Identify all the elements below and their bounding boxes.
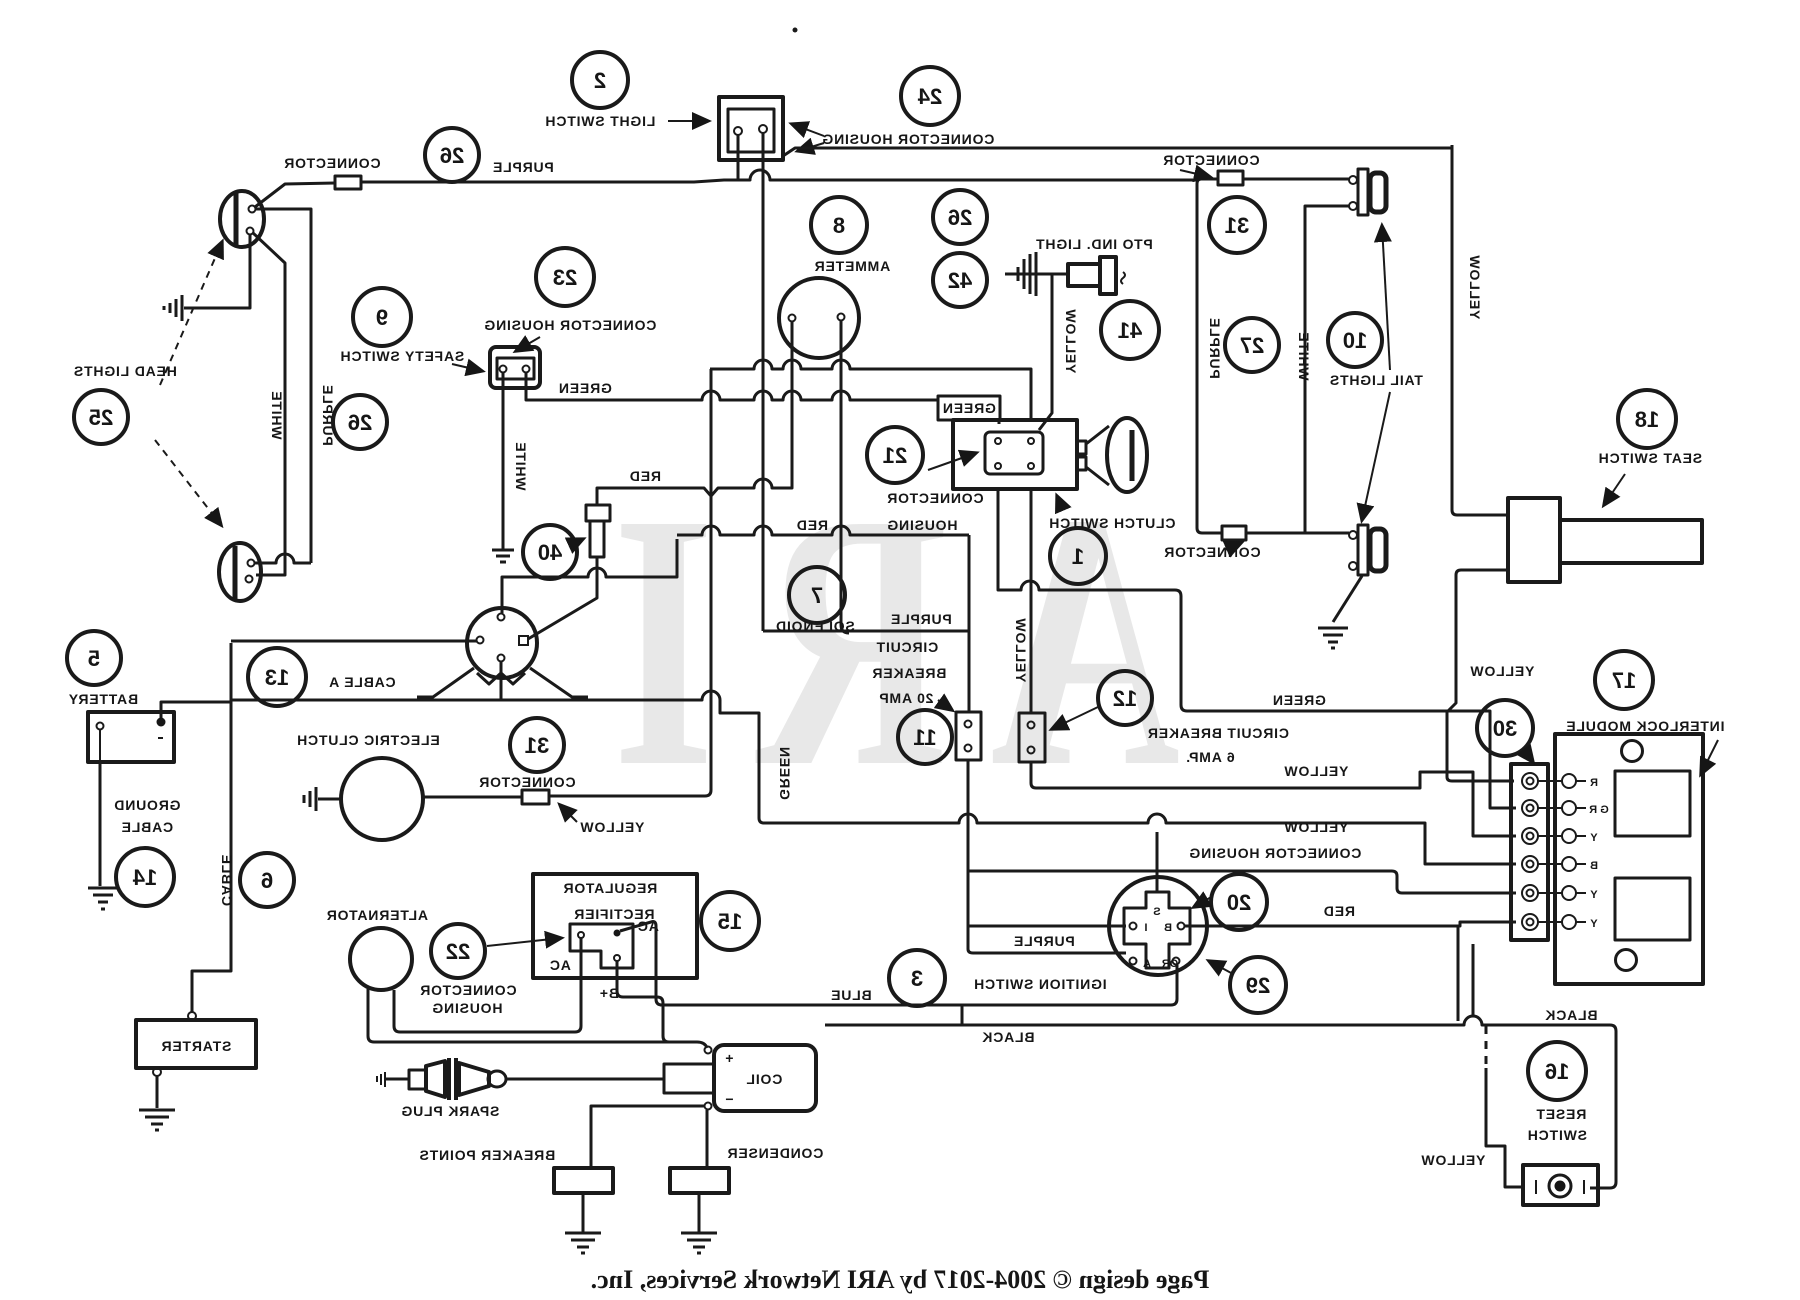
ground (safety switch) [492,550,514,562]
svg-text:PTO IND. LIGHT: PTO IND. LIGHT [1035,236,1153,252]
svg-text:HOUSING: HOUSING [432,1000,503,1016]
svg-text:2: 2 [594,68,606,93]
svg-text:GREEN: GREEN [942,400,996,416]
callout circle 27 [1225,318,1279,372]
svg-text:IGNITION SWITCH: IGNITION SWITCH [973,976,1106,992]
arrow housing to switch bottom [798,143,824,151]
svg-text:GREEN: GREEN [1272,692,1326,708]
svg-text:R: R [1590,777,1598,789]
condenser [670,1168,729,1193]
callout circle 2 [572,52,628,108]
svg-text:Y: Y [1590,889,1598,901]
arrow 40 to fuse [570,539,583,545]
callout circle 13 [248,648,306,706]
callout circle 3 [889,950,945,1006]
wire clutch bottom left (green) to module bus [998,489,1516,808]
svg-text:15: 15 [718,909,742,934]
wire purple jog over white into lower headlight [255,554,311,563]
label CIRCUIT BREAKER 20 AMP [872,639,947,706]
wire spark plug to coil [506,1078,664,1081]
svg-text:S: S [1153,906,1160,918]
wire red bus to connector 30 [968,871,1516,893]
svg-text:3: 3 [911,966,923,991]
regulator rectifier (item 15) [533,874,697,978]
coil minus terminal [705,1103,712,1110]
ground (breaker points) [565,1233,601,1253]
svg-text:CIRCUIT: CIRCUIT [876,639,938,655]
svg-text:6 AMP.: 6 AMP. [1185,749,1234,765]
callout circle 30 [1477,700,1533,756]
svg-text:SAFETY SWITCH: SAFETY SWITCH [340,348,464,364]
svg-text:INTERLOCK MODULE: INTERLOCK MODULE [1565,718,1724,734]
svg-text:41: 41 [1118,318,1142,343]
callout circle 31 (tail) [1209,197,1265,253]
solenoid (item 7) [467,608,537,678]
arrow housing to switch top [792,124,824,136]
svg-text:ELECTRIC CLUTCH: ELECTRIC CLUTCH [296,732,439,748]
svg-text:ALTERNATOR: ALTERNATOR [326,907,428,923]
svg-text:STARTER: STARTER [161,1038,232,1054]
clutch switch housing (item 21/1) [953,420,1077,489]
svg-text:YELLOW: YELLOW [1421,1152,1486,1168]
arrow to lower headlight (dashed) [155,440,221,525]
svg-text:COIL: COIL [746,1071,783,1087]
arrow 12 to breaker [1052,707,1098,729]
arrow tail lights down [1362,392,1390,520]
wire regulator AC top to blue [620,922,662,1006]
svg-text:BATTERY: BATTERY [68,691,138,707]
wire green into housing [998,420,1001,424]
callout circle 11 [898,710,952,764]
svg-text:RED: RED [796,517,828,533]
callout circle 21 [867,427,923,483]
wire light switch right terminal (purple drop) [762,133,765,631]
breaker points [554,1168,613,1193]
svg-text:PURPLE: PURPLE [890,611,952,627]
svg-text:CABLE: CABLE [121,819,173,835]
svg-text:23: 23 [553,265,577,290]
svg-text:25: 25 [89,405,113,430]
svg-text:+: + [725,1050,734,1066]
svg-text:20: 20 [1227,890,1251,915]
svg-text:SEAT SWITCH: SEAT SWITCH [1598,450,1702,466]
ammeter (item 8) [779,278,859,358]
wire ignition B to connector 30 [1185,922,1516,926]
svg-text:WHITE: WHITE [269,390,285,439]
svg-text:SOLENOID: SOLENOID [775,618,855,634]
wire purple bus to light switch and tail lights [361,170,1197,182]
callout circle 15 [701,892,759,950]
svg-text:GREEN: GREEN [777,746,793,800]
svg-text:10: 10 [1343,328,1367,353]
svg-text:31: 31 [1225,213,1249,238]
arrow 21 to housing [928,453,976,470]
svg-text:14: 14 [132,865,157,890]
svg-text:RED: RED [629,468,661,484]
svg-text:30: 30 [1493,716,1517,741]
arrow 23 housing to switch [516,337,540,351]
svg-text:CONNECTOR HOUSING: CONNECTOR HOUSING [1189,845,1362,861]
wire tail light 1 purple through connector [1197,179,1349,533]
svg-text:I: I [1144,922,1147,934]
PTO ind light [1005,252,1125,296]
callout circle 18 [1618,390,1676,448]
svg-text:CONNECTOR: CONNECTOR [478,774,575,790]
svg-text:13: 13 [265,665,289,690]
svg-text:LIGHT SWITCH: LIGHT SWITCH [545,113,656,129]
wire breaker 11 bottom drop [968,760,1126,953]
svg-text:Y: Y [1590,918,1598,930]
svg-text:CIRCUIT BREAKER: CIRCUIT BREAKER [1147,725,1289,741]
svg-text:26: 26 [348,410,372,435]
wire green from safety switch [526,373,938,400]
wire electric clutch to connector [423,796,522,799]
circuit breaker 20A (item 11) [956,712,981,760]
arrow to safety switch [452,364,482,371]
wire purple vertical to breaker 11 [968,535,971,712]
callout circle 23 [536,248,594,306]
svg-text:18: 18 [1635,407,1659,432]
wire solenoid bottom stub [500,662,503,700]
svg-text:YELLOW: YELLOW [1467,255,1483,320]
wire clutch bottom right (yellow) to breaker 12 [1030,489,1033,712]
module pins with letters [1562,774,1609,930]
ignition terminal letters [1143,906,1178,970]
svg-text:CONNECTOR: CONNECTOR [886,490,983,506]
callout circle 12 [1098,671,1152,725]
callout circle 26 (third) [933,190,987,244]
svg-text:9: 9 [376,305,388,330]
callout circle 29 [1230,957,1286,1013]
svg-text:AC: AC [549,957,571,973]
wire PTO yellow drop [1039,274,1052,430]
svg-text:27: 27 [1240,333,1264,358]
ground (electric clutch) [304,787,341,811]
svg-text:PURPLE: PURPLE [1013,933,1075,949]
svg-text:YELLOW: YELLOW [1284,819,1349,835]
tail light upper (item 10) [1349,169,1386,215]
svg-text:RED: RED [1323,903,1355,919]
svg-text:CABLE: CABLE [219,854,235,906]
label CONNECTOR HOUSING (22) [419,982,516,1016]
wire big cable battery to starter [192,643,231,1012]
battery (item 5) [88,712,174,762]
svg-text:G R: G R [1589,804,1609,816]
wire purple vertical headlight pair [255,209,311,563]
arrow to tail connector 2 [1225,543,1241,550]
label CONNECTOR HOUSING (21) [886,490,983,533]
safety switch (item 9) [490,347,540,388]
arrow to breaker 11 [938,700,952,710]
svg-text:7: 7 [811,583,823,608]
callout circle 22 [431,924,485,978]
svg-text:SPARK PLUG: SPARK PLUG [401,1103,500,1119]
wire condenser ground [698,1193,701,1233]
wire fuse to solenoid R terminal [528,557,597,639]
callout circle 26 [425,128,479,182]
arrow to module [1701,740,1718,774]
svg-text:ARI: ARI [569,438,1180,842]
wire battery plus to solenoid bottom and jog to yellow bus [161,691,764,823]
wire coil minus to condenser [706,1110,709,1168]
svg-text:HEAD LIGHTS: HEAD LIGHTS [73,363,177,379]
arrow 22 to regulator plug [487,938,561,946]
wire ammeter right drop to purple bus [841,321,849,633]
arrow to light switch [668,120,708,122]
svg-text:GREEN: GREEN [558,380,612,396]
fuse (item 40) [586,505,610,557]
svg-text:YELLOW: YELLOW [1470,663,1535,679]
svg-text:HOUSING: HOUSING [887,517,958,533]
svg-text:YELLOW: YELLOW [1284,763,1349,779]
svg-text:16: 16 [1545,1059,1569,1084]
wire blue regulator to ignition OR [660,965,1177,1005]
svg-text:RESET: RESET [1536,1106,1587,1122]
svg-text:31: 31 [525,733,549,758]
svg-text:BREAKER POINTS: BREAKER POINTS [419,1147,555,1163]
wire vertical 711 (red tap to electric clutch) [549,369,711,796]
wire starter ground [156,1076,159,1108]
headlight lower (item 25) [219,543,261,601]
svg-text:CABLE A: CABLE A [328,674,395,690]
svg-text:WHITE: WHITE [1296,331,1312,380]
connector strip (item 30) [1511,764,1548,940]
svg-text:WHITE: WHITE [513,441,529,490]
svg-text:CONNECTOR: CONNECTOR [1163,544,1260,560]
svg-text:8: 8 [833,213,845,238]
coil plus terminal [705,1047,712,1054]
tail light lower (item 10) [1349,525,1386,575]
wire coil minus to breaker points [591,1106,704,1168]
wire yellow top run to seat switch [783,148,1452,156]
wire yellow from seat switch down [1447,570,1514,781]
callout circle 26 (second) [333,395,387,449]
svg-text:YELLOW: YELLOW [1013,618,1029,683]
label GROUND CABLE [113,797,180,835]
svg-text:1: 1 [1072,544,1084,569]
wire purple bus into breaker 11 [763,630,969,633]
callout circle 25 [74,390,128,444]
svg-text:20 AMP: 20 AMP [879,690,934,706]
svg-text:29: 29 [1246,973,1270,998]
ground (condenser) [681,1233,717,1253]
ground (tail light) [1318,628,1348,648]
callout circle 24 [901,67,959,125]
svg-text:YELLOW: YELLOW [580,819,645,835]
svg-text:YELLOW: YELLOW [1063,309,1079,374]
wire solenoid left to cable A bus [231,640,477,643]
arrow 20 to housing [1194,896,1213,907]
wire purple feed from headlight to connector [255,183,335,207]
callout circle 40 [523,525,577,579]
svg-text:17: 17 [1612,668,1636,693]
wire white between tail lights [1305,206,1349,533]
callout circle 20 [1211,874,1267,930]
wire ignition S up to yellow bus [1156,832,1159,892]
arrow 29 to housing [1209,961,1233,974]
connector (tail 1, item 31) [1218,171,1243,185]
svg-text:BLACK: BLACK [1545,1007,1598,1023]
svg-text:26: 26 [948,205,972,230]
svg-text:B: B [1590,860,1598,872]
callout circle 10 [1328,313,1382,367]
svg-text:CONNECTOR: CONNECTOR [283,155,380,171]
coil [664,1045,816,1111]
svg-text:12: 12 [1113,686,1137,711]
svg-text:SWITCH: SWITCH [1527,1127,1587,1143]
wire black bus to reset switch [825,1016,1616,1188]
ground (battery) [88,888,118,909]
ignition connector housing (items 20/29) [1109,877,1207,975]
arrow tail lights up [1382,226,1390,370]
svg-text:22: 22 [446,939,470,964]
alternator [350,928,412,990]
wire stub strip to black loop [1472,944,1475,1016]
connector (inline, item 26) [335,176,361,189]
circuit breaker 6A (item 12) [1019,713,1045,762]
wire regulator B+ to coil plus [617,961,669,1042]
svg-text:TAIL LIGHTS: TAIL LIGHTS [1329,372,1423,388]
svg-text:40: 40 [538,540,562,565]
clutch switch horn [1077,418,1147,492]
green label box [938,396,1000,420]
electric clutch [341,758,423,840]
wire yellow to reset (dashed then solid) [1486,1026,1523,1187]
wire black vertical to connector 30 [1457,926,1460,1021]
connector (electric clutch, item 31) [522,790,549,804]
arrow 30 to strip [1524,750,1533,762]
svg-text:26: 26 [440,143,464,168]
wire white from safety switch to ground [502,373,505,550]
wire yellow breaker12 to connector 30 [1031,762,1516,836]
svg-text:A: A [1143,958,1151,970]
interlock module (item 17) [1555,734,1703,984]
wire yellow bus 2 to connector 30 [764,814,1516,864]
wire light switch left terminal [737,135,740,181]
solenoid legs [417,668,588,697]
wire breaker points ground [582,1193,585,1233]
callout circle 17 [1595,651,1653,709]
light switch (item 2) [719,97,783,160]
wire battery ground cable [99,762,102,886]
svg-text:6: 6 [261,868,273,893]
starter [136,1012,256,1076]
label RESET SWITCH [1527,1106,1587,1143]
arrow yellow label to wire [560,805,577,822]
ground (starter) [139,1110,175,1130]
svg-text:B: B [1164,922,1172,934]
svg-text:CONNECTOR HOUSING: CONNECTOR HOUSING [484,317,657,333]
svg-text:5: 5 [88,646,100,671]
wire bus 535 [677,526,969,535]
svg-text:Page design © 2004-2017 by ARI: Page design © 2004-2017 by ARI Network S… [591,1265,1210,1294]
svg-text:21: 21 [883,443,907,468]
wire black tap [961,1005,964,1025]
strip to module links [1538,781,1562,922]
svg-text:11: 11 [913,725,936,750]
callout circle 1 [1050,528,1106,584]
svg-text:CLUTCH SWITCH: CLUTCH SWITCH [1048,515,1175,531]
wire bus to clutch switch terminal 2 [710,360,1031,420]
wire headlight ground [184,235,250,308]
svg-text:CONNECTOR HOUSING: CONNECTOR HOUSING [822,131,995,147]
svg-text:CONDENSER: CONDENSER [727,1145,824,1161]
svg-text:CONNECTOR: CONNECTOR [1162,152,1259,168]
wire ammeter left to red bus [597,322,792,505]
arrow to tail connector 1 [1180,170,1210,177]
arrow to upper headlight (dashed) [160,242,222,385]
seat switch (item 18) [1508,498,1702,582]
svg-text:24: 24 [917,84,942,109]
wire white vertical headlight pair [253,233,285,575]
callout circle 31 [510,718,564,772]
spark plug [377,1058,506,1100]
callout circle 14 [116,848,174,906]
wire yellow to seat switch [1452,145,1508,515]
headlight upper (item 25) [220,191,264,247]
svg-text:BREAKER: BREAKER [872,665,947,681]
arrow clutch switch label [1057,496,1063,510]
svg-text:GROUND: GROUND [113,797,180,813]
wire tail light 2 ground lead [1333,576,1362,622]
svg-text:AMMETER: AMMETER [814,258,890,274]
svg-text:Y: Y [1590,832,1598,844]
svg-text:−: − [725,1091,734,1107]
ground (headlights) [164,295,182,321]
callout circle 41 [1101,301,1159,359]
callout circle 16 [1528,1042,1586,1100]
wire regulator AC left to alternator [394,938,581,1032]
callout circle 7 [789,567,845,623]
label CIRCUIT BREAKER 6 AMP [1147,725,1289,765]
wire alternator to coil plus [368,989,707,1048]
wire ignition I terminal [968,925,1126,928]
connector (tail 2) [1222,526,1246,540]
svg-text:PURPLE: PURPLE [492,159,554,175]
arrow seat switch [1604,474,1625,505]
svg-text:BLACK: BLACK [982,1029,1035,1045]
reset switch (item 16) [1523,1165,1598,1205]
callout circle 8 [811,197,867,253]
callout circle 9 [353,288,411,346]
wire solenoid top bus [502,539,677,613]
svg-text:BLUE: BLUE [830,987,871,1003]
callout circle 5 [67,631,121,685]
svg-text:42: 42 [948,268,972,293]
callout circle 6 [240,853,294,907]
callout circle 42 [933,253,987,307]
svg-text:CONNECTOR: CONNECTOR [419,982,516,998]
svg-text:REGULATOR: REGULATOR [563,880,658,896]
svg-text:PURPLE: PURPLE [1207,317,1223,379]
stray scan dot [793,28,798,33]
